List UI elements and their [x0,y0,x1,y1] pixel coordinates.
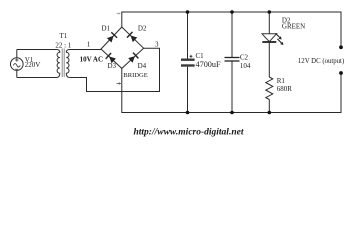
svg-text:3: 3 [155,40,159,48]
svg-text:GREEN: GREEN [282,22,305,30]
svg-text:C1: C1 [196,52,205,60]
svg-text:12V DC (output): 12V DC (output) [298,58,344,65]
svg-text:D1: D1 [102,25,111,33]
svg-text:D4: D4 [138,62,147,70]
svg-text:BRIDGE: BRIDGE [123,72,148,79]
svg-text:104: 104 [240,62,251,70]
svg-text:680R: 680R [277,85,293,93]
svg-text:C2: C2 [240,54,249,62]
svg-text:D3: D3 [108,62,117,70]
svg-text:T1: T1 [60,32,68,40]
svg-text:1: 1 [87,41,91,49]
svg-text:10V AC: 10V AC [80,56,103,64]
svg-text:http://www.micro-digital.net: http://www.micro-digital.net [134,128,244,138]
svg-text:4700uF: 4700uF [196,60,221,69]
svg-text:220V: 220V [25,61,41,69]
svg-text:D2: D2 [138,25,147,33]
svg-text:22 : 1: 22 : 1 [55,42,71,50]
